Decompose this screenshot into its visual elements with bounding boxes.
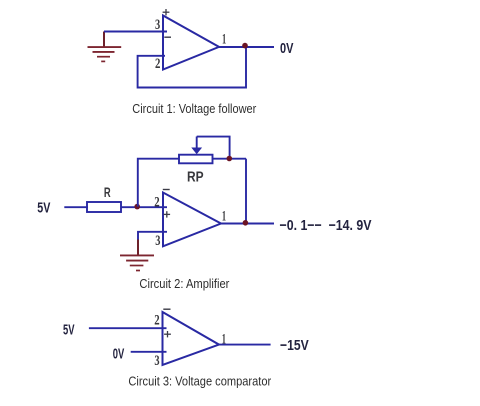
- svg-text:2: 2: [155, 56, 160, 72]
- U3 plus marking: [164, 331, 171, 337]
- wire: feedback from output to U1 pin 2: [138, 47, 246, 88]
- svg-text:1: 1: [222, 32, 226, 48]
- wire: 5V to resistor R: [64, 206, 88, 208]
- junction dot: RP wiper tie: [227, 156, 233, 162]
- wire: 0V to U3 pin 3: [131, 351, 167, 353]
- svg-text:−15V: −15V: [280, 337, 309, 354]
- wire: node A up to RP left terminal: [138, 159, 179, 207]
- svg-text:3: 3: [155, 17, 160, 33]
- wire: GND1 to U1 pin 3: [104, 31, 167, 33]
- svg-text:Circuit 1: Voltage follower: Circuit 1: Voltage follower: [132, 101, 257, 116]
- resistor R: [87, 202, 121, 212]
- svg-text:3: 3: [154, 353, 159, 369]
- RP wiper arrow: [191, 137, 202, 155]
- U1 plus marking: [163, 9, 170, 15]
- op-amp U2: [163, 193, 221, 247]
- op-amp U3: [163, 312, 220, 365]
- svg-text:R: R: [104, 184, 111, 200]
- svg-text:1: 1: [222, 331, 226, 347]
- svg-text:1: 1: [222, 209, 226, 225]
- svg-text:−0. 1−− −14. 9V: −0. 1−− −14. 9V: [280, 217, 372, 234]
- wire: RP right terminal to feedback drop: [213, 158, 247, 160]
- wire: wiper to RP right terminal: [197, 137, 230, 159]
- op-amp U1: [163, 16, 219, 70]
- wire: U1 output: [219, 46, 274, 48]
- junction dot: node A (inverting input): [134, 204, 140, 210]
- U2 minus marking: [163, 189, 170, 191]
- potentiometer RP body: [179, 155, 213, 164]
- svg-text:Circuit 2: Amplifier: Circuit 2: Amplifier: [139, 276, 230, 291]
- U1 minus marking: [164, 36, 171, 38]
- junction dot: U1 output node: [242, 43, 248, 49]
- svg-text:5V: 5V: [63, 321, 75, 338]
- svg-text:0V: 0V: [113, 346, 125, 363]
- junction dot: U2 output node: [243, 220, 249, 226]
- svg-text:3: 3: [155, 233, 160, 249]
- svg-text:5V: 5V: [37, 199, 50, 216]
- U2 plus marking: [164, 211, 171, 217]
- ground symbol GND1: [88, 32, 122, 62]
- svg-text:Circuit 3: Voltage comparator: Circuit 3: Voltage comparator: [128, 374, 271, 389]
- wire: U2 pin 3 to ground: [138, 232, 167, 241]
- svg-text:2: 2: [154, 194, 159, 210]
- wire: 5V to U3 pin 2: [89, 327, 167, 329]
- U3 minus marking: [163, 308, 170, 310]
- wire: feedback drop to output node: [245, 159, 247, 224]
- svg-text:0V: 0V: [280, 40, 293, 57]
- ground symbol GND2: [120, 240, 154, 271]
- svg-text:2: 2: [154, 312, 159, 328]
- wire: U3 output: [219, 344, 271, 346]
- wire: R to U2 pin 2: [121, 206, 167, 208]
- wire: U2 output: [221, 223, 274, 225]
- svg-text:RP: RP: [187, 169, 204, 186]
